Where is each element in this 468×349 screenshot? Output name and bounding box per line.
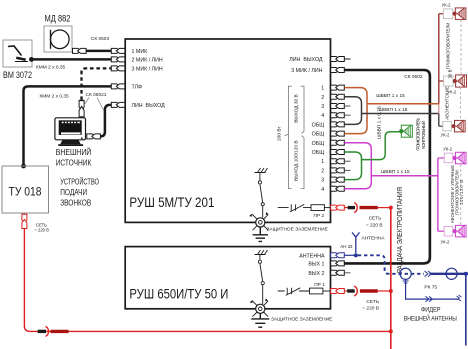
svg-text:ТЛФ: ТЛФ [132, 85, 143, 91]
wire СЕТЬ from ПР 2 to распределение [344, 203, 391, 213]
РУШ 650И/ТУ 50 И box [125, 247, 330, 309]
connector ПР 1 output (red) [331, 289, 345, 294]
svg-text:ГРОМКОГОВОРИТЕЛИ: ГРОМКОГОВОРИТЕЛИ [446, 23, 451, 70]
connector 2 МИК/ЛИН [111, 57, 125, 62]
svg-text:ПОДАЧИ: ПОДАЧИ [60, 187, 87, 197]
обрыв кабеля marks [457, 295, 462, 301]
connector выход row 11 [331, 177, 345, 182]
svg-text:ВНЕШНЕЙ АНТЕННЫ: ВНЕШНЕЙ АНТЕННЫ [404, 315, 457, 323]
node: dot внизу красной шины [389, 329, 393, 333]
svg-text:ЗВОНКОВ: ЗВОНКОВ [60, 198, 91, 208]
svg-text:30 В: 30 В [448, 69, 453, 78]
node: dot на красной шине у ПР1 [389, 289, 393, 293]
svg-text:ЗАЩИТНОЕ ЗАЗЕМЛЕНИЕ: ЗАЩИТНОЕ ЗАЗЕМЛЕНИЕ [267, 227, 328, 233]
svg-text:ШВВП 1 х 15: ШВВП 1 х 15 [379, 107, 408, 113]
wire stub row 9 [344, 160, 350, 162]
pointer lines from СК 05021 label [84, 98, 104, 111]
wire: dashed to 3 МИК/ЛИН [82, 68, 112, 100]
РУШ 650И fuse switch ПР 1 [278, 288, 310, 296]
svg-text:СЕТЬ: СЕТЬ [366, 299, 379, 305]
svg-text:РУШ 5М/ТУ 201: РУШ 5М/ТУ 201 [129, 194, 214, 210]
cable 3 МИК/ЛИН to РУШ 650И ВЫХ 1 (thick black) [344, 70, 430, 263]
connector СК 05021 (vertical plug above monitor) [79, 101, 84, 117]
РУШ 201 fuse switch ПР 2 [278, 204, 311, 212]
svg-text:ОБЩ: ОБЩ [312, 141, 325, 147]
svg-text:КОНТРОЛЬНЫЙ: КОНТРОЛЬНЫЙ [421, 121, 426, 149]
wire: фидер внешней антенны (thick navy) [430, 273, 468, 275]
svg-text:1 МИК: 1 МИК [132, 49, 149, 55]
svg-text:ГРОМКОГОВОРИТЕЛЬ: ГРОМКОГОВОРИТЕЛЬ [415, 117, 420, 150]
svg-text:РК 75: РК 75 [424, 284, 437, 290]
red connector под ТУ 018 [22, 214, 27, 228]
wire: МД 882 to 1 МИК [72, 50, 111, 53]
svg-text:4: 4 [321, 113, 324, 119]
шина 100/120В громкоговорителей (vertical magenta) [437, 158, 439, 231]
svg-text:СК 05021: СК 05021 [86, 92, 107, 98]
connector ВЫХ 2 [331, 270, 345, 275]
svg-text:ВНЕШНИЙ: ВНЕШНИЙ [56, 146, 92, 157]
connector ВЫХ 1 [331, 261, 345, 266]
pin numbers column [312, 86, 325, 193]
svg-text:КММ 2 х 0,35: КММ 2 х 0,35 [40, 94, 70, 100]
fuse ПР 2 [311, 205, 324, 211]
разъёмное соединение на нижнем красном проводе [38, 326, 69, 336]
svg-text:СЕТЬ: СЕТЬ [369, 215, 382, 221]
svg-text:2: 2 [321, 95, 324, 101]
wire green loop row8-row11 [344, 152, 361, 180]
connector выход row 4 [331, 113, 345, 118]
svg-text:ШВВП 1 х 15: ШВВП 1 х 15 [376, 93, 405, 99]
svg-text:100/120 В: 100/120 В [459, 180, 464, 205]
connector 3 МИК/ЛИН right [331, 68, 345, 73]
svg-text:МД 882: МД 882 [45, 13, 71, 23]
svg-text:ВЫХОД 30 В: ВЫХОД 30 В [294, 94, 300, 123]
wire: красная вертикальная шина питания [390, 208, 392, 349]
wire: запасной фидер вниз [406, 279, 459, 299]
wire: dashed antenna coax [358, 255, 424, 273]
node: antenna junction dot [354, 253, 358, 257]
громкоговоритель УК-2 (1) [439, 2, 466, 19]
РУШ 650И internal: disconnect switch [260, 255, 263, 305]
wire stub ВЫХ 2 [344, 272, 350, 274]
wire black loop row2-row5 [344, 97, 361, 125]
wire stub row 3 [344, 105, 350, 107]
svg-text:ТУ 018: ТУ 018 [9, 185, 42, 199]
svg-text:РАЗДАЧА ЭЛЕКТРОПИТАНИЯ: РАЗДАЧА ЭЛЕКТРОПИТАНИЯ [397, 187, 404, 273]
цепочка громкоговорителей 100/120В (dashed gray) [460, 164, 462, 225]
svg-text:УК-2: УК-2 [443, 147, 452, 152]
connector выход row 3 [331, 104, 345, 109]
svg-text:4: 4 [321, 187, 324, 193]
svg-text:ЗАЩИТНОЕ ЗАЗЕМЛЕНИЕ: ЗАЩИТНОЕ ЗАЗЕМЛЕНИЕ [271, 317, 332, 323]
svg-text:УСТРОЙСТВО: УСТРОЙСТВО [60, 176, 99, 187]
svg-text:АБОНЕНТСКИЕ: АБОНЕНТСКИЕ [445, 86, 450, 120]
connector выход row 10 [331, 168, 345, 173]
wire: красный провод от ТУ 018 вниз и вправо [24, 228, 390, 331]
svg-text:ВЫХОД 100/120 В: ВЫХОД 100/120 В [294, 140, 300, 181]
РУШ 201 arrester circle with arrows [249, 212, 268, 230]
ТУ 018 box [2, 166, 49, 213]
wire: feeder drop at right edge [465, 274, 467, 346]
connector ЛИН ВЫХОД left [111, 102, 125, 107]
МД 882 microphone box [44, 26, 72, 52]
wire: ТУ 018 to ТЛФ [24, 86, 112, 166]
wire stub row 10 [344, 169, 350, 171]
wire magenta branch to 100/120В bus [371, 175, 438, 177]
wire: АНТЕННА pin to dot [344, 254, 354, 256]
svg-text:ВЫХ 2: ВЫХ 2 [308, 271, 324, 277]
node: dot at feeder right end [464, 272, 468, 276]
node: dot на красной шине у ПР2 [389, 206, 393, 210]
connector АНТЕННА (navy) [331, 253, 345, 258]
громкоговоритель УК-2 (3) [439, 120, 465, 137]
node: dot at ТУ 018 top [21, 164, 26, 169]
РУШ 650И arrester circle with arrows [250, 298, 268, 316]
svg-text:АНТЕННА: АНТЕННА [299, 253, 325, 259]
connector выход row 1 [331, 85, 345, 90]
wire: ВМ 3072 to 2 МИК/ЛИН [31, 58, 111, 61]
svg-text:УК-2: УК-2 [442, 2, 451, 7]
svg-text:ВЫХ 1: ВЫХ 1 [308, 262, 324, 268]
svg-text:~ 220 В: ~ 220 В [34, 227, 49, 232]
connector 1 МИК [111, 48, 125, 53]
svg-text:ПР 2: ПР 2 [314, 213, 325, 219]
громкоговоритель УК-2 (4, magenta) [438, 147, 466, 164]
svg-text:РУШ 650И/ТУ 50 И: РУШ 650И/ТУ 50 И [129, 285, 228, 301]
шина абонентских громкоговорителей 30В (vertical maroon) [438, 14, 440, 104]
connector выход row 6 [331, 131, 345, 136]
svg-text:200 Вт: 200 Вт [277, 126, 283, 141]
svg-text:1: 1 [321, 86, 324, 92]
ground symbol РУШ 650И [251, 313, 269, 327]
svg-text:ПР 1: ПР 1 [314, 282, 325, 288]
chevrons на нижнем фидере [426, 296, 433, 302]
svg-text:3: 3 [321, 178, 324, 184]
output pin rows 1..4 ОБЩ..ОБЩ 1..4 [331, 85, 345, 191]
svg-text:2: 2 [321, 168, 324, 174]
connector выход row 5 [331, 122, 345, 127]
connector выход row 2 [331, 94, 345, 99]
цепочка громкоговорителей (dashed gray) [460, 20, 462, 75]
wire stub row 4 [344, 114, 350, 116]
wire СЕТЬ from ПР 1 [344, 286, 391, 296]
connector at monitor output [87, 134, 101, 139]
svg-text:КММ 2 х 0,35: КММ 2 х 0,35 [36, 64, 66, 70]
громкоговоритель УК-2 (5, magenta) [438, 225, 466, 244]
ВМ 3072 microphone box [3, 40, 32, 67]
connector выход row 7 [331, 140, 345, 145]
внешний источник monitor icon [55, 118, 86, 146]
wire black branch to loudspeaker bus [362, 113, 439, 115]
svg-text:АНТЕННА: АНТЕННА [362, 236, 386, 242]
svg-text:~ 220 В: ~ 220 В [366, 223, 383, 229]
bracket ВЫХОД 30 В / 100/120 В [301, 86, 304, 188]
РУШ 650И internal: chassis hatch [255, 250, 268, 255]
wire magenta loop row7-row12 [344, 143, 371, 189]
громкоговоритель УК-2 (2) [439, 75, 467, 94]
coax shield ticks under circle 1 [403, 281, 409, 283]
connector СК 0503 pair [73, 48, 87, 53]
wire orange branch to loudspeaker bus [367, 103, 439, 105]
svg-text:ОБЩ: ОБЩ [312, 132, 325, 138]
coax connector circle 1 [400, 268, 411, 279]
svg-text:ИСТОЧНИК: ИСТОЧНИК [56, 158, 92, 168]
connector ЛИН ВЫХОД right [331, 57, 345, 62]
antenna АН 33 symbol (navy) [352, 232, 359, 253]
fuse ПР 1 [310, 288, 323, 294]
svg-text:~ 220 В: ~ 220 В [362, 306, 379, 312]
connector выход row 9 [331, 159, 345, 164]
connector выход row 8 [331, 150, 345, 155]
РУШ 201 internal: chassis hatch [255, 168, 268, 173]
svg-text:ЛИН ВЫХОД: ЛИН ВЫХОД [289, 57, 323, 63]
connector выход row 12 [331, 186, 345, 191]
svg-text:3: 3 [321, 104, 324, 110]
svg-text:ШВВП 1 х 0,75: ШВВП 1 х 0,75 [377, 106, 383, 139]
svg-text:АН 33: АН 33 [340, 244, 353, 249]
svg-text:ВМ 3072: ВМ 3072 [3, 70, 32, 80]
svg-text:СК 0502: СК 0502 [404, 74, 423, 80]
wire orange loop row1-row6 [344, 88, 367, 134]
svg-text:1: 1 [321, 159, 324, 165]
svg-text:УК-2: УК-2 [441, 239, 450, 244]
wire: внешний источник to ЛИН ВЫХОД [100, 105, 111, 136]
РУШ 201 internal: disconnect switch [260, 173, 263, 218]
svg-text:ШВВП 1 х 15: ШВВП 1 х 15 [381, 169, 410, 175]
ground symbol РУШ 201 [253, 227, 268, 241]
connector ПР 2 output (red) [331, 205, 345, 210]
svg-text:2 МИК / ЛИН: 2 МИК / ЛИН [132, 58, 163, 64]
svg-text:ОБЩ: ОБЩ [312, 122, 325, 128]
connector 3 МИК/ЛИН [111, 66, 125, 71]
bracket 200 Вт [284, 86, 291, 188]
wire stub ЛИН ВЫХОД right [344, 58, 350, 60]
svg-text:3 МИК / ЛИН: 3 МИК / ЛИН [291, 68, 322, 74]
svg-text:ФИДЕР: ФИДЕР [421, 306, 441, 313]
svg-text:ОБЩ: ОБЩ [312, 150, 325, 156]
svg-text:СК 0503: СК 0503 [91, 36, 110, 42]
connector ТЛФ [111, 84, 125, 89]
wire green branch to контрольный громкоговоритель [362, 132, 400, 160]
svg-text:ЛИН ВЫХОД: ЛИН ВЫХОД [132, 103, 166, 109]
svg-text:3 МИК / ЛИН: 3 МИК / ЛИН [132, 67, 163, 73]
node: junction at ВМ 3072 output [29, 57, 34, 62]
громкоговоритель контрольный (green speaker) [399, 125, 412, 137]
РУШ 5М/ТУ 201 box [125, 39, 330, 222]
coax connector circle 2 [446, 268, 457, 279]
chevrons на фидере [425, 271, 432, 277]
svg-text:УК-2: УК-2 [441, 133, 450, 138]
